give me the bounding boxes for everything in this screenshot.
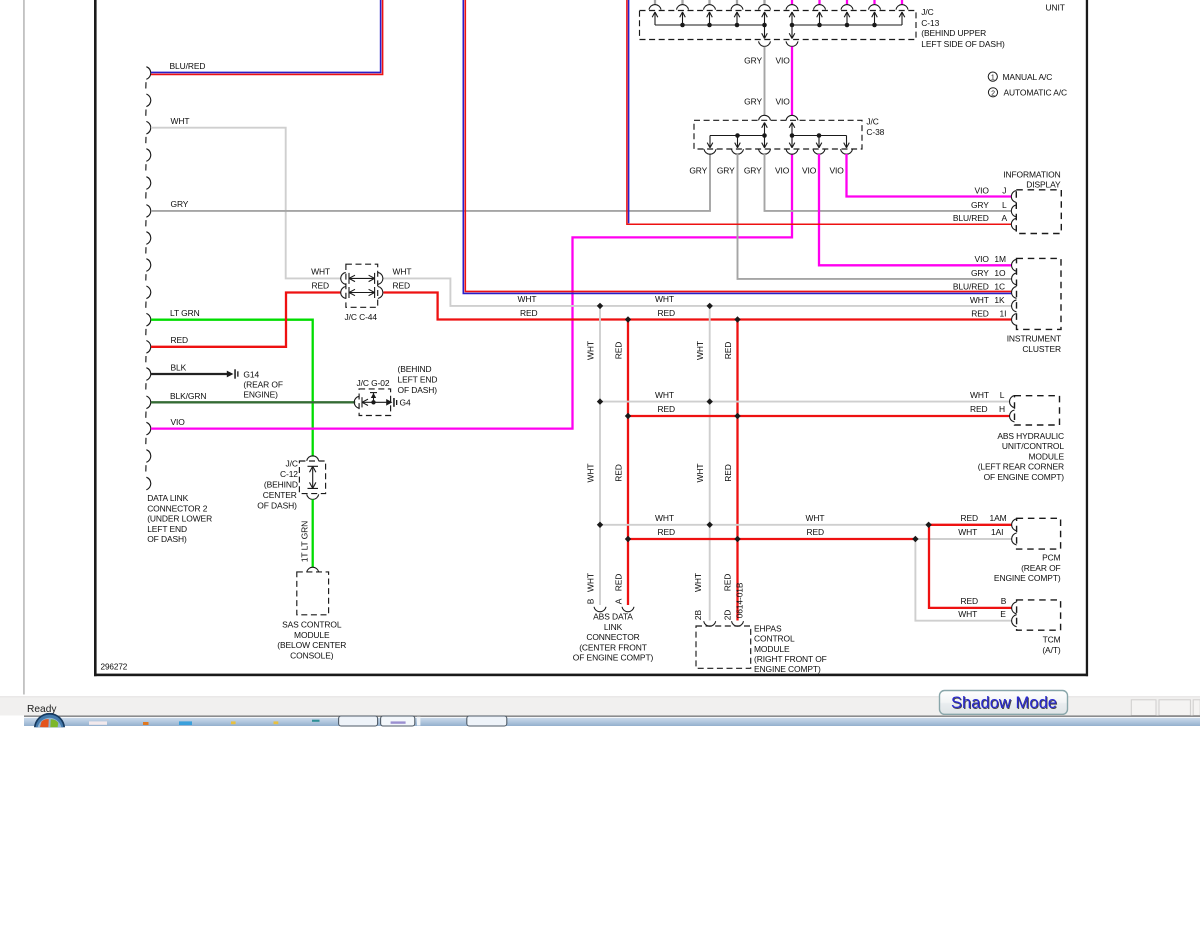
J/C G-02 internal arrows [361,397,363,407]
svg-text:RED: RED [614,574,624,592]
wire WHT junction to TCM E [915,539,1011,621]
svg-text:VIO: VIO [829,166,844,176]
EHPAS control module box [704,621,716,626]
svg-text:VIO: VIO [975,185,990,195]
svg-text:A: A [1002,213,1008,223]
J/C C-44 row WHT [341,272,346,284]
wire WHT horizontal to PCM junction [600,524,929,526]
PCM connector [1017,518,1061,549]
J/C C-44 row RED [341,287,346,299]
svg-text:GRY: GRY [744,56,762,66]
svg-text:(BELOW CENTER: (BELOW CENTER [277,640,346,650]
wire BLK (left harness to ground G14) [151,373,227,375]
J/C C-12 box [307,456,319,461]
svg-text:1T LT GRN: 1T LT GRN [299,521,309,562]
legend: manual / automatic A/C [988,72,997,81]
svg-text:RED: RED [960,513,978,523]
svg-text:WHT: WHT [655,294,674,304]
svg-text:L: L [1002,200,1007,210]
J/C C-13 bus bars [655,24,902,26]
wire VIO C-38 to information display J [847,154,1012,197]
svg-text:PCM: PCM [1042,553,1061,563]
J/C C-13 box [640,11,917,40]
wire WHT (left harness to J/C C-44) [151,128,341,279]
svg-text:GRY: GRY [744,97,762,107]
app canvas left edge [23,0,24,695]
J/C C-38 input arcs/arrows (top: GRY, VIO) [759,115,771,120]
wire RED horizontal to PCM junction [628,538,915,540]
diagram page left border [94,0,97,676]
svg-text:(LEFT REAR CORNER: (LEFT REAR CORNER [978,462,1064,472]
wire RED vertical (x737.5) to EHPAS 2D [736,320,738,621]
svg-text:ENGINE): ENGINE) [243,389,278,399]
svg-text:GRY: GRY [171,199,189,209]
svg-text:GRY: GRY [971,268,989,278]
svg-text:WHT: WHT [655,390,674,400]
svg-text:(CENTER FRONT: (CENTER FRONT [579,642,647,652]
ground G14 [227,371,234,378]
svg-text:(REAR OF: (REAR OF [1021,563,1061,573]
svg-text:WHT: WHT [586,464,596,483]
svg-text:WHT: WHT [518,294,537,304]
svg-text:CONSOLE): CONSOLE) [290,651,334,661]
wire BLU/RED from top to information display A [628,0,630,223]
svg-text:RED: RED [658,308,676,318]
svg-text:WHT: WHT [171,116,190,126]
svg-text:MODULE: MODULE [294,630,330,640]
svg-text:MODULE: MODULE [1029,451,1065,461]
svg-text:ABS HYDRAULIC: ABS HYDRAULIC [997,431,1064,441]
wire RED vertical (x628) to ABS data link connector pin A [627,320,629,606]
ground G4 at G-02 [386,399,392,406]
svg-text:RED: RED [723,464,733,482]
svg-text:C-12: C-12 [280,469,298,479]
svg-text:UNIT: UNIT [1046,2,1065,12]
svg-text:OF DASH): OF DASH) [257,501,297,511]
wire GRY C-38 to information display L [765,154,1012,211]
J/C C-13 input stubs (GRY x5, VIO x5) [654,0,656,4]
svg-text:1: 1 [991,75,995,82]
svg-text:INSTRUMENT: INSTRUMENT [1007,334,1061,344]
wire VIO C-13 to C-38 [791,47,793,116]
TCM connector [1017,600,1061,630]
svg-text:J/C: J/C [866,117,878,127]
svg-text:RED: RED [520,308,538,318]
ABS data link connector arcs [594,607,606,612]
svg-text:VIO: VIO [775,166,790,176]
svg-text:Shadow Mode: Shadow Mode [951,693,1057,712]
svg-text:RED: RED [658,404,676,414]
svg-text:1AI: 1AI [991,527,1003,537]
wire BLK/GRN (left harness to J/C G-02) [151,401,355,403]
J/C C-13 pin arcs and arrows [649,5,661,10]
J/C C-13 output arrows [764,25,766,39]
svg-text:1M: 1M [994,254,1006,264]
wire GRY C-38 to instrument cluster 1O [738,154,1012,279]
svg-text:WHT: WHT [958,609,977,619]
svg-text:RED: RED [722,574,732,592]
wire LT GRN (left harness to J/C C-12) [151,320,313,457]
svg-text:1I: 1I [1000,308,1007,318]
svg-text:BLU/RED: BLU/RED [953,281,989,291]
svg-text:2: 2 [991,90,995,97]
status bar panes [1131,700,1156,716]
svg-text:WHT: WHT [958,527,977,537]
svg-text:SAS CONTROL: SAS CONTROL [282,620,342,630]
svg-text:RED: RED [311,281,329,291]
svg-text:EHPAS: EHPAS [754,623,782,633]
wire WHT 1AI junction to PCM [915,538,1011,540]
svg-text:VIO: VIO [776,56,791,66]
svg-text:INFORMATION: INFORMATION [1003,169,1060,179]
svg-text:C-38: C-38 [866,127,884,137]
svg-text:WHT: WHT [695,341,705,360]
diagram page bottom border [94,674,1088,677]
svg-text:RED: RED [723,342,733,360]
svg-text:LINK: LINK [604,622,623,632]
svg-text:A: A [614,598,624,604]
svg-text:WHT: WHT [311,267,330,277]
svg-text:CLUSTER: CLUSTER [1022,344,1061,354]
svg-text:TCM: TCM [1043,635,1061,645]
wire RED horizontal to ABS H [628,415,1010,417]
svg-text:UNIT/CONTROL: UNIT/CONTROL [1002,441,1064,451]
svg-text:C-13: C-13 [921,18,939,28]
svg-text:G4: G4 [400,398,411,408]
svg-text:VIO: VIO [776,97,791,107]
svg-text:CONNECTOR: CONNECTOR [586,632,639,642]
svg-text:CONTROL: CONTROL [754,634,795,644]
wire WHT vertical (x709.7) to EHPAS 2B [709,306,711,621]
svg-text:2B: 2B [693,609,703,620]
svg-text:WHT: WHT [393,267,412,277]
taskbar [24,716,1200,717]
svg-text:VIO: VIO [171,417,186,427]
svg-text:RED: RED [970,404,988,414]
svg-text:BLK/GRN: BLK/GRN [170,391,206,401]
wire BLU/RED (left harness, to top) [151,0,381,72]
svg-text:WHT: WHT [806,513,825,523]
svg-text:(UNDER LOWER: (UNDER LOWER [147,514,212,524]
svg-text:GRY: GRY [971,200,989,210]
wire WHT horizontal to ABS L [600,401,1010,403]
wire VIO (left harness to J/C C-38) [151,154,792,429]
instrument cluster connector [1017,258,1062,329]
svg-text:J: J [1002,185,1006,195]
svg-text:MODULE: MODULE [754,644,790,654]
svg-text:OF DASH): OF DASH) [398,385,438,395]
svg-text:ENGINE COMPT): ENGINE COMPT) [994,573,1061,583]
wire GRY (left harness to J/C C-38) [151,154,710,211]
svg-text:DATA LINK: DATA LINK [147,493,188,503]
wire GRY C-13 to C-38 [764,47,766,116]
J/C C-44 box [346,264,378,307]
J/C G-02 box [359,389,391,416]
svg-text:E: E [1000,609,1006,619]
svg-text:(REAR OF: (REAR OF [243,379,283,389]
J/C C-38 box [694,120,862,149]
svg-text:WHT: WHT [970,295,989,305]
svg-text:RED: RED [971,308,989,318]
svg-text:1K: 1K [994,295,1005,305]
svg-text:VIO: VIO [802,166,817,176]
svg-text:RED: RED [658,527,676,537]
svg-text:(RIGHT FRONT OF: (RIGHT FRONT OF [754,654,827,664]
svg-text:WHT: WHT [693,573,703,592]
svg-text:LT GRN: LT GRN [170,308,200,318]
information display connector [1016,190,1061,234]
svg-text:Ready: Ready [27,704,57,715]
svg-text:J/C C-44: J/C C-44 [345,312,378,322]
svg-text:296272: 296272 [101,663,128,672]
svg-text:L: L [1000,390,1005,400]
wire RED junction to TCM B [929,525,1012,608]
svg-text:AUTOMATIC A/C: AUTOMATIC A/C [1004,87,1068,97]
svg-text:0614-01B: 0614-01B [735,582,745,618]
svg-text:(A/T): (A/T) [1042,645,1061,655]
svg-text:J/C: J/C [286,459,298,469]
svg-text:G14: G14 [243,369,259,379]
svg-text:(BEHIND: (BEHIND [264,480,298,490]
svg-text:RED: RED [614,342,624,360]
svg-text:(BEHIND: (BEHIND [398,364,432,374]
svg-text:J/C G-02: J/C G-02 [357,378,390,388]
wire WHT C-44 to instrument cluster 1K [384,278,1012,306]
svg-text:RED: RED [807,527,825,537]
svg-text:B: B [586,598,596,604]
svg-text:ABS DATA: ABS DATA [593,612,633,622]
svg-text:(BEHIND UPPER: (BEHIND UPPER [921,28,986,38]
svg-text:CENTER: CENTER [263,490,297,500]
svg-text:2D: 2D [722,610,732,621]
svg-text:LEFT SIDE OF DASH): LEFT SIDE OF DASH) [921,39,1005,49]
svg-text:OF ENGINE COMPT): OF ENGINE COMPT) [984,472,1065,482]
SAS control module box [307,567,319,572]
J/C C-38 bus bars [710,135,847,137]
svg-text:LEFT END: LEFT END [147,524,187,534]
svg-text:WHT: WHT [586,341,596,360]
svg-text:LEFT END: LEFT END [398,375,438,385]
svg-text:CONNECTOR 2: CONNECTOR 2 [147,503,208,513]
svg-text:GRY: GRY [717,166,735,176]
harness cut edge (scallops) [146,67,151,490]
svg-text:1C: 1C [994,281,1005,291]
wire RED 1AM junction to PCM [929,524,1012,526]
svg-text:DISPLAY: DISPLAY [1026,180,1061,190]
svg-text:RED: RED [171,335,189,345]
svg-text:WHT: WHT [655,513,674,523]
svg-text:J/C: J/C [921,7,933,17]
junction dots [597,303,603,309]
wire BLU/RED from top to instrument cluster 1C [463,0,1011,293]
status bar [0,696,1200,715]
diagram page right border [1086,0,1088,676]
svg-text:BLU/RED: BLU/RED [953,213,989,223]
svg-text:GRY: GRY [689,166,707,176]
taskbar icon fragments [89,721,107,724]
svg-text:WHT: WHT [695,464,705,483]
svg-text:WHT: WHT [586,573,596,592]
svg-text:1O: 1O [994,268,1006,278]
svg-text:BLU/RED: BLU/RED [170,61,206,71]
svg-text:RED: RED [614,464,624,482]
svg-text:RED: RED [960,596,978,606]
wire RED (left harness to J/C C-44) [151,293,341,347]
svg-text:RED: RED [393,281,411,291]
J/C C-38 output arrows (bottom x6) [709,136,711,148]
svg-text:ENGINE COMPT): ENGINE COMPT) [754,664,821,674]
svg-text:GRY: GRY [744,166,762,176]
svg-text:OF DASH): OF DASH) [147,534,187,544]
wire VIO C-38 to instrument cluster 1M [819,154,1012,265]
svg-text:B: B [1001,596,1007,606]
wire 1T LT GRN C-12 to SAS [312,499,314,567]
svg-text:VIO: VIO [975,254,990,264]
svg-text:MANUAL A/C: MANUAL A/C [1003,72,1053,82]
wire RED C-44 to instrument cluster 1I [384,293,1012,320]
svg-text:1AM: 1AM [990,513,1007,523]
wire WHT vertical (x600) to ABS data link connector pin B [599,306,601,605]
svg-text:WHT: WHT [970,390,989,400]
taskbar window buttons [339,716,378,726]
ABS hydraulic unit connector [1015,396,1060,425]
svg-text:OF ENGINE COMPT): OF ENGINE COMPT) [573,653,654,663]
svg-text:BLK: BLK [171,363,187,373]
svg-text:H: H [999,404,1005,414]
